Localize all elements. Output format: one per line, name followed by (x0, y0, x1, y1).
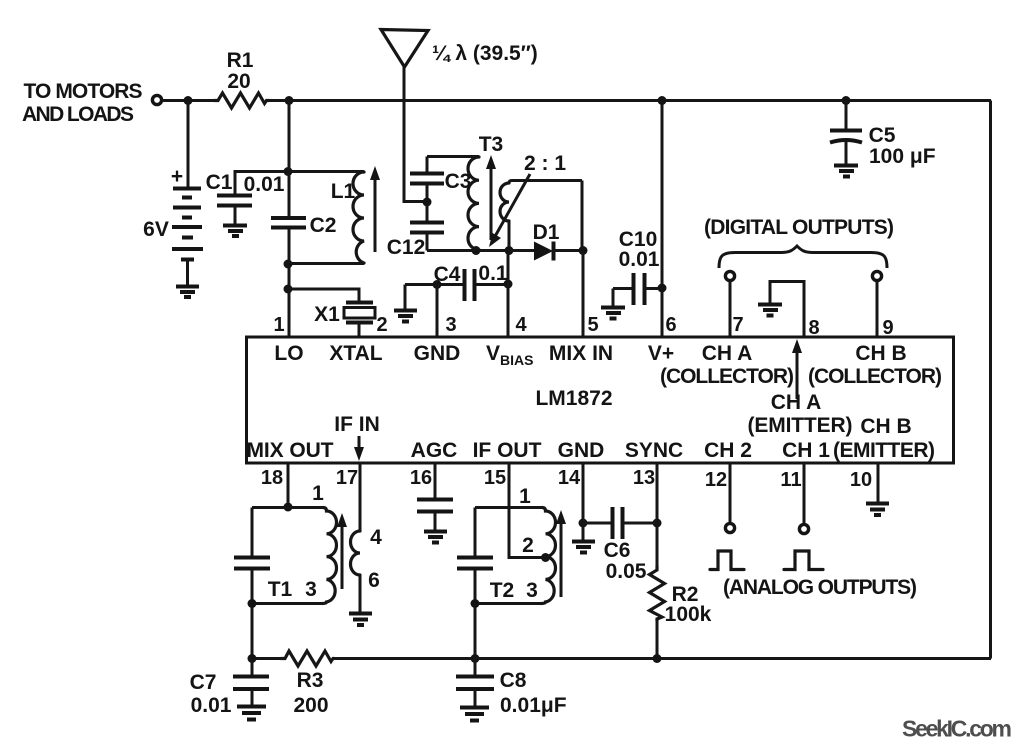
wire pin8 to ground (770, 282, 804, 338)
wire pin4 branch (507, 251, 510, 338)
svg-text:100k: 100k (665, 603, 712, 626)
capacitor C2 (271, 214, 336, 237)
capacitor C10 (613, 228, 662, 305)
wire LO branch lower (288, 228, 291, 338)
node T2 bottom left (471, 599, 480, 608)
node C1/L1 tap (284, 167, 293, 176)
antenna (381, 30, 538, 202)
svg-text:C8: C8 (500, 669, 527, 692)
wire pin13 stub (656, 463, 659, 566)
svg-text:3: 3 (305, 578, 317, 601)
wire pin12 stub (729, 463, 732, 523)
wire pin18 stub (287, 463, 290, 507)
svg-text:13: 13 (633, 467, 655, 489)
svg-text:0.01: 0.01 (619, 248, 660, 271)
ground (pin10) (866, 504, 889, 516)
svg-text:(COLLECTOR): (COLLECTOR) (660, 365, 794, 388)
wire V+ branch (661, 101, 664, 338)
IC U1 LM1872 (247, 337, 954, 463)
capacitor C3 (410, 157, 471, 203)
wire pin3 stub (436, 285, 439, 338)
svg-text:CH B: CH B (860, 415, 911, 438)
node T1 top (284, 503, 293, 512)
svg-text:11: 11 (780, 469, 801, 491)
svg-text:16: 16 (410, 467, 432, 489)
wire pin11 stub (803, 463, 806, 524)
pin numbers bottom (261, 467, 872, 491)
wire pin14 stub (582, 463, 585, 523)
transformer T1 secondary (351, 463, 383, 613)
svg-text:10: 10 (850, 469, 872, 491)
ground (C5) (834, 166, 858, 177)
svg-text:3: 3 (445, 314, 456, 336)
svg-text:12: 12 (705, 469, 727, 491)
capacitor C5 (830, 101, 936, 169)
svg-text:0.01μF: 0.01μF (500, 694, 567, 717)
node R1 output (285, 96, 294, 105)
svg-text:17: 17 (336, 467, 358, 489)
node rail/C8 (471, 654, 480, 663)
capacitor C12 (387, 202, 444, 259)
svg-text:7: 7 (732, 314, 743, 336)
capacitor C4 (405, 262, 508, 301)
node T3 secondary bottom (505, 246, 514, 255)
svg-text:AND LOADS: AND LOADS (22, 103, 134, 126)
svg-text:L1: L1 (331, 180, 356, 203)
terminal pin9 (CH B collector) (872, 271, 881, 337)
svg-text:14: 14 (558, 467, 581, 489)
svg-text:T1: T1 (268, 578, 293, 601)
resistor R3 (281, 651, 334, 717)
capacitor C8 (456, 659, 567, 718)
ground (T1 secondary) (349, 614, 372, 626)
wire pin5 branch (582, 251, 585, 338)
node pin14/C6 (579, 519, 588, 528)
svg-text:0.1: 0.1 (478, 262, 508, 285)
crystal X1 (288, 289, 375, 337)
node C5 rail tap (842, 96, 851, 105)
svg-text:1: 1 (519, 485, 531, 508)
svg-text:R1: R1 (227, 49, 254, 72)
IC top pin labels (274, 342, 942, 438)
svg-text:+: + (171, 165, 183, 188)
svg-text:¼ λ (39.5″): ¼ λ (39.5″) (432, 42, 538, 65)
svg-text:20: 20 (227, 70, 250, 93)
resistor R2 (650, 566, 712, 659)
svg-text:SeekIC.com: SeekIC.com (902, 716, 1012, 742)
svg-text:X1: X1 (314, 303, 340, 326)
svg-text:200: 200 (293, 694, 328, 717)
svg-text:4: 4 (370, 526, 382, 549)
ground (pin8) (758, 305, 782, 316)
node battery tap (184, 96, 193, 105)
node pin13/C6 (653, 519, 662, 528)
svg-text:XTAL: XTAL (329, 342, 382, 365)
ground (C7) (237, 707, 266, 720)
wire bottom rail (251, 657, 991, 660)
transformer T3 primary (427, 133, 510, 251)
svg-text:0.05: 0.05 (606, 560, 647, 583)
arrow (T1 core) (337, 513, 347, 589)
svg-text:8: 8 (808, 317, 819, 339)
svg-text:6V: 6V (143, 218, 169, 241)
node rail/R2 (653, 654, 662, 663)
arrow (CH A emitter to pin 8) (792, 339, 802, 399)
wire LO branch upper (288, 101, 291, 219)
svg-text:1: 1 (273, 314, 284, 336)
svg-text:9: 9 (882, 317, 893, 339)
arrow (T2 core) (556, 510, 566, 597)
node C4 left / pin3 (433, 280, 442, 289)
svg-text:C2: C2 (310, 214, 337, 237)
node rail/C7 (248, 654, 257, 663)
svg-text:CH B: CH B (855, 342, 906, 365)
ground (battery) (176, 287, 199, 298)
svg-text:IF IN: IF IN (334, 413, 380, 436)
svg-text:15: 15 (484, 467, 506, 489)
resistor R1 (214, 49, 269, 108)
pin numbers top (273, 314, 893, 339)
svg-text:D1: D1 (533, 221, 560, 244)
svg-text:MIX OUT: MIX OUT (247, 439, 334, 462)
arrow (IF IN) (354, 436, 364, 461)
ground (C8) (460, 708, 489, 721)
node C4 right / pin4 (504, 280, 513, 289)
capacitor (T1 tank) (234, 508, 270, 660)
transformer T3 secondary (500, 181, 582, 252)
node T3 primary bottom (472, 246, 481, 255)
terminal pin11 (CH 1 out) (799, 524, 808, 533)
IC bottom pin labels (247, 413, 936, 462)
svg-text:AGC: AGC (411, 439, 458, 462)
capacitor C7 (190, 659, 269, 718)
svg-text:0.01: 0.01 (244, 173, 285, 196)
svg-text:SYNC: SYNC (625, 439, 683, 462)
node C10/V+ (658, 284, 667, 293)
svg-text:C7: C7 (190, 671, 217, 694)
ground (AGC) (424, 532, 447, 543)
capacitor (AGC bypass) (417, 463, 453, 531)
svg-text:(DIGITAL OUTPUTS): (DIGITAL OUTPUTS) (704, 216, 894, 239)
pulse waveform CH1 (784, 551, 823, 570)
wire right border (989, 101, 992, 659)
diode D1 (510, 221, 583, 261)
svg-text:IF OUT: IF OUT (473, 439, 542, 462)
node T1 bottom left (248, 599, 257, 608)
terminal pin7 (CH A collector) (725, 271, 734, 337)
svg-text:100 μF: 100 μF (869, 145, 936, 168)
arrow (L1 adjust) (370, 166, 380, 252)
battery 6V (143, 101, 203, 287)
svg-text:GND: GND (558, 439, 605, 462)
svg-text:C6: C6 (604, 539, 631, 562)
node D1 cathode (579, 246, 588, 255)
transformer T2 primary (475, 485, 556, 604)
svg-text:2: 2 (522, 534, 534, 557)
inductor L1 (288, 172, 364, 264)
svg-text:TO MOTORS: TO MOTORS (24, 80, 143, 103)
capacitor (T2 tank) (457, 508, 493, 660)
node antenna/C3/C12 (423, 198, 432, 207)
brace (digital outputs) (719, 246, 887, 268)
node T2 tap (541, 553, 550, 562)
label 2:1 with pointer (489, 152, 566, 247)
svg-text:T3: T3 (479, 133, 504, 156)
svg-text:T2: T2 (490, 579, 515, 602)
pulse waveform CH2 (710, 551, 744, 570)
svg-text:18: 18 (261, 467, 283, 489)
capacitor C6 (583, 507, 657, 583)
svg-text:C1: C1 (206, 171, 233, 194)
wire pin10 stub (877, 463, 880, 503)
svg-text:(COLLECTOR): (COLLECTOR) (808, 365, 942, 388)
svg-text:4: 4 (515, 314, 527, 336)
node V+ rail tap (658, 96, 667, 105)
svg-text:R3: R3 (297, 669, 324, 692)
svg-text:(ANALOG OUTPUTS): (ANALOG OUTPUTS) (723, 576, 917, 599)
svg-text:C12: C12 (387, 236, 426, 259)
ground (C10) (601, 289, 625, 319)
ground (C4) (394, 285, 417, 322)
svg-text:CH A: CH A (702, 342, 753, 365)
svg-text:CH 1: CH 1 (782, 439, 830, 462)
svg-text:(EMITTER): (EMITTER) (748, 414, 853, 437)
svg-text:C5: C5 (869, 124, 896, 147)
svg-text:MIX IN: MIX IN (549, 342, 613, 365)
wire pin15 stub (509, 463, 545, 558)
capacitor C1 (206, 171, 288, 225)
svg-text:LO: LO (274, 342, 303, 365)
svg-text:0.01: 0.01 (191, 694, 232, 717)
ground (pin14) (572, 523, 595, 553)
svg-text:1: 1 (312, 482, 324, 505)
svg-text:2: 2 (376, 314, 387, 336)
node X1 tap (284, 285, 293, 294)
svg-text:2 : 1: 2 : 1 (524, 152, 566, 175)
ground (C1) (223, 226, 247, 237)
svg-text:5: 5 (587, 314, 598, 336)
svg-text:3: 3 (526, 579, 538, 602)
arrow (T3 core) (486, 155, 496, 240)
svg-text:6: 6 (665, 314, 676, 336)
wire top rail (162, 99, 991, 102)
transformer T1 primary (252, 482, 337, 604)
svg-text:GND: GND (414, 342, 461, 365)
svg-text:6: 6 (368, 569, 380, 592)
terminal pin12 (CH 2 out) (725, 523, 734, 532)
svg-text:LM1872: LM1872 (535, 387, 612, 410)
svg-text:CH 2: CH 2 (704, 439, 752, 462)
node L1 bottom (284, 260, 293, 269)
label TO MOTORS AND LOADS (22, 80, 143, 126)
svg-text:V+: V+ (648, 342, 674, 365)
svg-text:(EMITTER): (EMITTER) (833, 439, 935, 462)
terminal (input) (152, 95, 161, 104)
